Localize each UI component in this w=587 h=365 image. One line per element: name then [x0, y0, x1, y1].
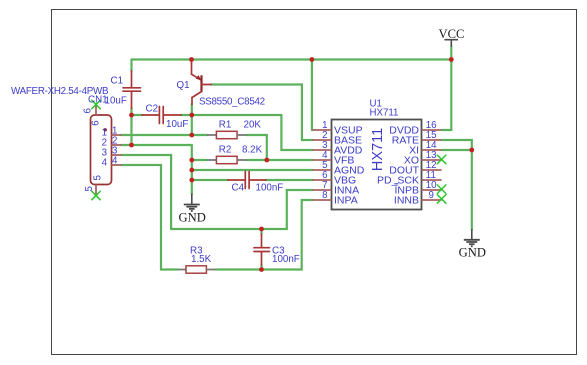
- svg-text:INNB: INNB: [394, 195, 419, 207]
- wire R1 right down to VFB: [247, 135, 267, 160]
- wire C3 bottom green: [260, 265, 262, 270]
- ground symbol GND left: [184, 194, 200, 212]
- capacitor C1: [123, 71, 141, 109]
- wire pin15 RATE: [442, 140, 472, 150]
- junction rail VCC column: [449, 57, 454, 62]
- wire VFB row to pin4: [247, 159, 313, 161]
- svg-text:5: 5: [84, 186, 95, 191]
- power symbol VCC: [445, 40, 459, 47]
- svg-text:SS8550_C8542: SS8550_C8542: [199, 97, 265, 108]
- junction on rail at VSUP column: [310, 57, 315, 62]
- capacitor C3: [254, 234, 270, 265]
- no-connect X on CN1 pin 6: [92, 100, 100, 108]
- no-connect X on CN1 pin 5: [92, 191, 100, 199]
- svg-text:R1: R1: [219, 120, 232, 131]
- svg-text:9: 9: [429, 190, 434, 201]
- capacitor C4: [228, 172, 266, 189]
- resistor R1: [207, 131, 247, 138]
- junction on rail at Q1 emitter: [189, 57, 194, 62]
- connector CN1: [91, 105, 122, 195]
- svg-text:INPA: INPA: [334, 195, 358, 207]
- wire VSUP drop to pin1: [311, 60, 313, 131]
- wire Q1 base to pin2 BASE: [211, 85, 312, 141]
- junction C1 bottom pin2 row: [129, 143, 134, 148]
- svg-text:HX711: HX711: [370, 107, 399, 118]
- svg-text:1.5K: 1.5K: [191, 254, 212, 265]
- no-connect X on U1 pin 13 XO: [437, 155, 446, 164]
- wire AGND row to pin5: [192, 169, 313, 171]
- wire C2 left lead: [132, 114, 143, 116]
- wire Q1 collector column: [191, 104, 193, 135]
- junction XI RATE: [469, 148, 474, 153]
- junction C1-C2 tap: [129, 113, 134, 118]
- wire C3 top green: [260, 229, 262, 234]
- no-connect X on U1 pin 10 INPB: [437, 185, 446, 194]
- wire VCC rail: [132, 58, 452, 60]
- svg-text:6: 6: [83, 108, 94, 113]
- wire connector pin2 to GND column: [121, 144, 192, 146]
- wire AVDD net to pin3: [192, 115, 313, 150]
- svg-text:C4: C4: [232, 183, 245, 194]
- svg-text:100nF: 100nF: [272, 254, 300, 265]
- wire lower row to C3 top and pin7: [171, 190, 312, 229]
- svg-text:VCC: VCC: [439, 27, 465, 41]
- wire R2 left: [192, 159, 207, 161]
- wire pin14 XI to GND: [442, 149, 472, 151]
- svg-text:GND: GND: [179, 210, 206, 224]
- svg-text:4: 4: [102, 158, 108, 169]
- junction R2 left GND column: [189, 158, 194, 163]
- svg-text:C1: C1: [111, 76, 124, 87]
- svg-text:C2: C2: [146, 104, 159, 115]
- junction C3 top: [259, 227, 264, 232]
- wire connector pin1 to R1: [121, 134, 207, 136]
- svg-text:100nF: 100nF: [256, 183, 284, 194]
- wire VCC symbol drop: [450, 46, 452, 130]
- svg-text:HX711: HX711: [370, 128, 386, 171]
- resistor R2: [207, 156, 247, 163]
- junction C2 right collector: [189, 113, 194, 118]
- svg-text:R2: R2: [219, 145, 232, 156]
- wire C4 right to pin6: [266, 179, 313, 181]
- wire C4 left: [192, 179, 228, 181]
- junction R1-R2 VFB: [264, 158, 269, 163]
- junction C4 left GND column: [189, 178, 194, 183]
- transistor Q1: [192, 60, 212, 105]
- svg-text:4: 4: [112, 156, 118, 167]
- svg-text:Q1: Q1: [177, 80, 190, 91]
- svg-text:8.2K: 8.2K: [242, 145, 263, 156]
- junction C3 bottom: [259, 267, 264, 272]
- no-connect X on U1 pin 9 INNB: [437, 195, 446, 204]
- wire C2 right to collector: [181, 114, 192, 116]
- wire connector pin4 down to R3: [121, 165, 178, 270]
- svg-text:5: 5: [93, 175, 104, 180]
- junction R1 left: [189, 133, 194, 138]
- svg-text:6: 6: [91, 120, 102, 125]
- svg-text:10uF: 10uF: [166, 119, 188, 130]
- svg-text:GND: GND: [459, 245, 486, 259]
- svg-text:10uF: 10uF: [105, 96, 127, 107]
- wire C1 bottom to pin2 row: [130, 109, 132, 146]
- junction AGND row GND column: [189, 168, 194, 173]
- ground symbol GND right: [464, 229, 480, 246]
- svg-text:20K: 20K: [244, 120, 262, 131]
- resistor R3: [178, 266, 216, 273]
- svg-text:WAFER-XH2.54-4PWB: WAFER-XH2.54-4PWB: [11, 86, 109, 97]
- svg-text:8: 8: [322, 190, 327, 201]
- wire R3 right to C3 bottom and pin8: [216, 200, 313, 270]
- capacitor C2: [142, 107, 181, 124]
- IC U1 HX711: [313, 120, 442, 210]
- wire connector pin3 down: [121, 155, 171, 229]
- wire C1 top lead to rail: [130, 60, 132, 72]
- wire pin16 to VCC column: [442, 129, 452, 131]
- wire GND column: [191, 145, 193, 194]
